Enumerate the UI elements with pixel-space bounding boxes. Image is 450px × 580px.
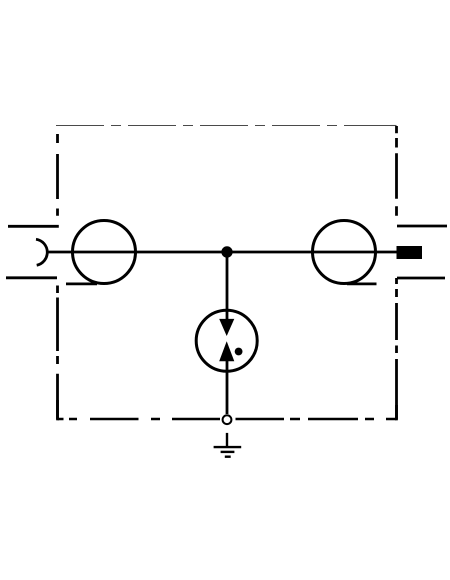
terminal stub bottom-right bbox=[397, 277, 445, 280]
enclosure top border (thin dash-dot) bbox=[56, 125, 397, 127]
tangent stub of left circle bbox=[66, 282, 97, 285]
input connector socket arc (female, left) bbox=[36, 239, 47, 265]
output connector pin (male, filled square, right) bbox=[397, 246, 423, 259]
SPD upper arrow (down-pointing triangle) bbox=[219, 319, 234, 336]
junction node on main wire bbox=[221, 246, 232, 257]
earth symbol bar 2 bbox=[221, 451, 235, 453]
wire junction to SPD bbox=[226, 252, 229, 320]
coupling element right (circle L2) bbox=[313, 221, 376, 284]
SPD lower arrow (up-pointing triangle) bbox=[219, 341, 234, 361]
ground node (open circle) bbox=[223, 415, 232, 424]
enclosure left border upper segment (dash-dot) bbox=[56, 134, 59, 216]
enclosure bottom border (dash-dot) bbox=[58, 418, 397, 421]
SPD indicator dot bbox=[235, 348, 243, 356]
wire SPD to ground node bbox=[226, 360, 229, 414]
earth symbol stem bbox=[226, 433, 228, 446]
enclosure bottom-left corner tick bbox=[56, 400, 59, 420]
coupling element left (circle L1) bbox=[73, 221, 136, 284]
enclosure left border lower segment (dash-dot) bbox=[56, 286, 59, 420]
tangent stub of right circle bbox=[347, 282, 377, 285]
main signal wire (through line) bbox=[47, 251, 399, 254]
top border corner dash at right bbox=[391, 125, 397, 127]
enclosure right border upper segment (dash-dot) bbox=[395, 126, 398, 216]
earth symbol bar 3 bbox=[225, 456, 231, 458]
SPD gas discharge tube circle F1 bbox=[196, 310, 257, 371]
enclosure right border lower segment (dash-dot) bbox=[395, 278, 398, 419]
enclosure bottom-right corner tick bbox=[395, 405, 398, 420]
earth symbol bar 1 bbox=[214, 446, 242, 448]
terminal stub top-right bbox=[397, 225, 447, 228]
terminal stub top-left bbox=[8, 225, 59, 228]
terminal stub bottom-left bbox=[6, 276, 57, 279]
